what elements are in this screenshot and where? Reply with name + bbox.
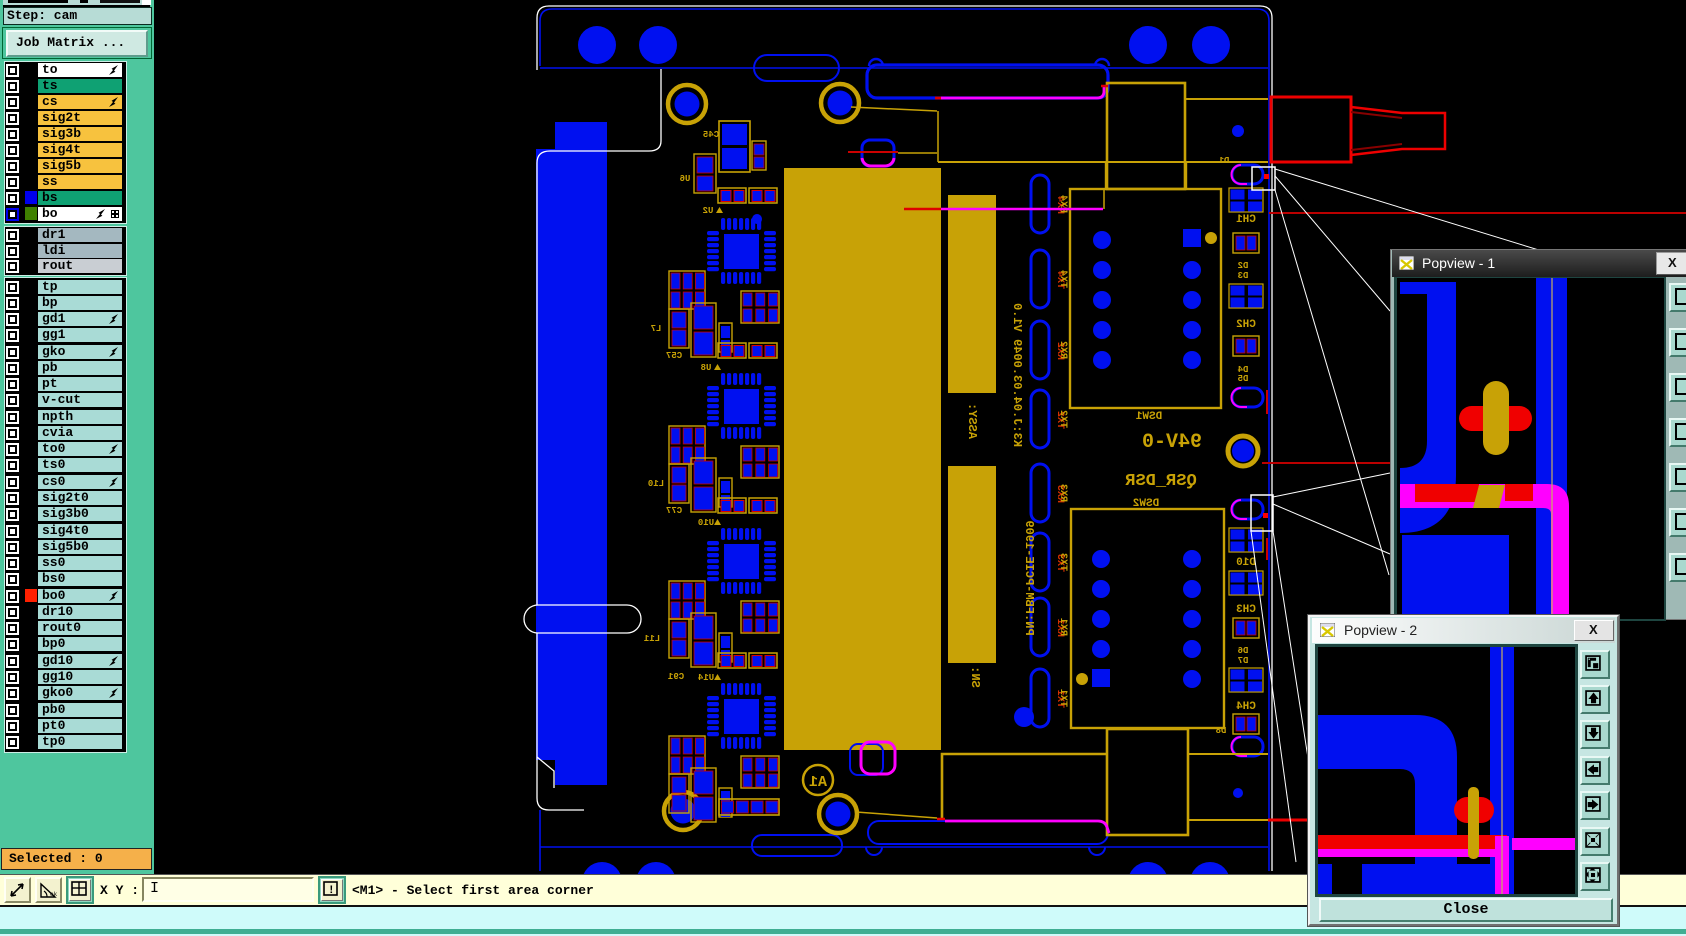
pv2 magenta band bbox=[1318, 849, 1507, 857]
svg-text:C57: C57 bbox=[666, 351, 682, 361]
layer row ss0 bbox=[0, 556, 121, 570]
layer row pt bbox=[0, 377, 121, 391]
diode D8 bbox=[1216, 714, 1259, 736]
svg-text:TX4: TX4 bbox=[1057, 270, 1068, 288]
channel 1 bbox=[669, 188, 779, 357]
channel 2 bbox=[669, 343, 779, 512]
selected counter bbox=[1, 848, 152, 870]
svg-text:ok: ok bbox=[50, 891, 58, 898]
layer row bp0 bbox=[0, 637, 121, 651]
pv2 canvas bbox=[1318, 647, 1575, 894]
layer row bs0 bbox=[0, 572, 121, 586]
gold pad SN bbox=[948, 466, 996, 663]
svg-text:D8: D8 bbox=[1216, 726, 1227, 736]
layer row gg1 bbox=[0, 328, 121, 342]
step row bbox=[3, 7, 152, 25]
layer row dr10 bbox=[0, 605, 121, 619]
pv1 thin gold line bbox=[1551, 278, 1553, 619]
svg-text:DSW2: DSW2 bbox=[1133, 498, 1159, 510]
layer row sig3b0 bbox=[0, 507, 121, 521]
layer row gd1 bbox=[0, 312, 121, 326]
C45 capacitor bbox=[719, 121, 750, 172]
CH3 pads bbox=[1229, 571, 1263, 616]
svg-text:U2: U2 bbox=[703, 206, 714, 216]
pv2 red band bbox=[1318, 835, 1507, 849]
anchor pad bottom bbox=[850, 744, 883, 775]
diode D4 bbox=[1233, 336, 1259, 384]
cut-off title row bbox=[3, 0, 150, 7]
DIP switch DSW2 bbox=[1071, 498, 1224, 728]
bottom gold/red/magenta trace bbox=[856, 812, 937, 818]
svg-text:DSW1: DSW1 bbox=[1135, 411, 1162, 423]
svg-text:C91: C91 bbox=[667, 672, 684, 682]
bottom slot stadium bbox=[752, 835, 842, 856]
svg-text:RX4: RX4 bbox=[1057, 195, 1068, 213]
layer row cs0 bbox=[0, 475, 121, 489]
top slot stadium left bbox=[754, 55, 839, 81]
bottom big slot outline bbox=[868, 821, 1108, 844]
layer row pt0 bbox=[0, 719, 121, 733]
svg-text:ASSY:: ASSY: bbox=[965, 403, 979, 439]
layer row pb0 bbox=[0, 703, 121, 717]
svg-text:CH1: CH1 bbox=[1236, 214, 1256, 226]
central gold region (heatsink/footprint) bbox=[784, 168, 941, 750]
mounting holes top bbox=[578, 26, 616, 64]
svg-text:RX1: RX1 bbox=[1057, 618, 1068, 636]
left layer panel bbox=[0, 0, 154, 874]
svg-text:L10: L10 bbox=[648, 479, 664, 489]
svg-text:94V-0: 94V-0 bbox=[1142, 431, 1202, 454]
pv1 canvas bbox=[1397, 278, 1664, 619]
layer row cs bbox=[0, 95, 121, 109]
layer row gg10 bbox=[0, 670, 121, 684]
magenta trace 2 bbox=[941, 208, 1103, 211]
svg-text:D6: D6 bbox=[1238, 646, 1249, 656]
connector slot bbox=[524, 605, 641, 633]
svg-text:D5: D5 bbox=[1238, 374, 1249, 384]
pv2 close btn bbox=[1574, 620, 1614, 641]
svg-text:CH3: CH3 bbox=[1236, 604, 1256, 616]
D10 pads bbox=[1229, 528, 1263, 569]
pv1 red pad bbox=[1459, 406, 1532, 431]
layer row npth bbox=[0, 410, 121, 424]
layer row sig5b bbox=[0, 159, 121, 173]
layer row to bbox=[0, 63, 121, 77]
layer row dr1 bbox=[0, 228, 121, 242]
svg-text:SN:: SN: bbox=[968, 666, 982, 688]
pv2 gold pad bbox=[1468, 787, 1479, 859]
D8 slot bbox=[1232, 737, 1263, 756]
grid button (active) bbox=[66, 876, 94, 904]
svg-text:C45: C45 bbox=[703, 130, 719, 140]
red connector envelope bbox=[1271, 97, 1351, 162]
layer row sig5b0 bbox=[0, 540, 121, 554]
layer group 2 (drill layers) bbox=[4, 226, 127, 276]
svg-text:L11: L11 bbox=[643, 634, 660, 644]
top slot rounded outline bbox=[867, 65, 1108, 98]
fiducial A1 bbox=[803, 765, 833, 795]
svg-text:CH2: CH2 bbox=[1236, 319, 1256, 331]
pv2 right blue track bbox=[1490, 647, 1514, 894]
pv1 canvas frame bbox=[1394, 277, 1666, 621]
zoom source box 1 bbox=[1252, 167, 1275, 190]
status bar bbox=[0, 905, 1686, 936]
CH1 pads bbox=[1229, 188, 1263, 226]
svg-text:U14: U14 bbox=[697, 673, 714, 683]
diode D6/D7 bbox=[1233, 618, 1259, 666]
svg-text:U10: U10 bbox=[698, 518, 714, 528]
layer row bo0 bbox=[0, 589, 121, 603]
layer row gko bbox=[0, 345, 121, 359]
vias bbox=[752, 214, 762, 224]
svg-text:PN:FBM-PCIE-1909: PN:FBM-PCIE-1909 bbox=[1022, 520, 1036, 635]
pv2 magenta stub bbox=[1512, 838, 1575, 850]
svg-text:TX2: TX2 bbox=[1057, 410, 1068, 428]
alert button bbox=[318, 876, 346, 904]
pv1 side buttons bbox=[1669, 283, 1686, 312]
svg-text:K3:J.04.03.0049 V1.0: K3:J.04.03.0049 V1.0 bbox=[1010, 303, 1024, 447]
svg-text:TX1: TX1 bbox=[1057, 689, 1068, 707]
plated holes (gold ring + blue pad) bbox=[668, 85, 706, 123]
top edge bumps bbox=[869, 59, 883, 66]
pv2 side buttons bbox=[1580, 650, 1610, 679]
layer row ss bbox=[0, 175, 121, 189]
layer row ts0 bbox=[0, 458, 121, 472]
mounting holes bottom bbox=[582, 862, 622, 902]
layer row sig2t0 bbox=[0, 491, 121, 505]
DIP switch DSW1 bbox=[1070, 163, 1221, 423]
svg-text:CH4: CH4 bbox=[1236, 701, 1256, 713]
measure tool button bbox=[35, 877, 62, 903]
Popview-2 window bbox=[1308, 615, 1619, 926]
pv2 red pad bbox=[1454, 797, 1494, 823]
svg-text:D2: D2 bbox=[1238, 261, 1249, 271]
svg-text:TX3: TX3 bbox=[1057, 553, 1068, 571]
pv2 bottom blue pour bbox=[1318, 864, 1491, 894]
svg-text:D7: D7 bbox=[1238, 656, 1249, 666]
magenta trace top bbox=[935, 97, 943, 100]
layer row ts bbox=[0, 79, 121, 93]
pv2 close button bbox=[1319, 898, 1613, 922]
channel 4 bbox=[669, 653, 779, 822]
svg-text:U8: U8 bbox=[701, 363, 712, 373]
layer row bo bbox=[0, 207, 121, 221]
layer row sig4t bbox=[0, 143, 121, 157]
svg-text:D10: D10 bbox=[1236, 557, 1256, 569]
red net lines right bbox=[1269, 212, 1686, 214]
board outline (blue) bbox=[540, 9, 1269, 871]
layer row gko0 bbox=[0, 686, 121, 700]
small 2-pad right of C45 bbox=[752, 141, 766, 170]
pv1 right blue track bbox=[1536, 278, 1567, 619]
layer group 3 (misc layers) bbox=[4, 277, 127, 753]
pv1 red overlays bbox=[1415, 484, 1479, 502]
LED slots column bbox=[1031, 175, 1049, 233]
coordinate input bbox=[142, 877, 314, 902]
svg-text:C77: C77 bbox=[666, 506, 682, 516]
layer row sig2t bbox=[0, 111, 121, 125]
layer row tp0 bbox=[0, 735, 121, 749]
layer row v-cut bbox=[0, 393, 121, 407]
diode D5 slot bbox=[1232, 388, 1263, 407]
pv2 canvas frame bbox=[1315, 644, 1578, 897]
bottom connector footprint bbox=[942, 754, 1107, 820]
layer row tp bbox=[0, 280, 121, 294]
top RF connector footprint bbox=[1107, 83, 1185, 189]
layer row pb bbox=[0, 361, 121, 375]
Popview-1 window bbox=[1390, 249, 1686, 620]
svg-text:!: ! bbox=[328, 885, 335, 897]
pv1 close btn bbox=[1656, 252, 1686, 275]
svg-text:U6: U6 bbox=[680, 174, 691, 184]
PCIe edge connector bbox=[536, 149, 607, 760]
pv2 blue elbow trace bbox=[1318, 715, 1457, 894]
svg-text:D3: D3 bbox=[1238, 271, 1249, 281]
zoom source box 2 bbox=[1251, 495, 1273, 531]
svg-text:RX2: RX2 bbox=[1057, 341, 1068, 359]
job matrix button bbox=[2, 27, 152, 59]
channel 3 bbox=[669, 498, 779, 667]
layer row rout0 bbox=[0, 621, 121, 635]
layer row to0 bbox=[0, 442, 121, 456]
diode D1 slot bbox=[1232, 165, 1263, 184]
zoom tool button bbox=[4, 877, 31, 903]
trailing passive row bbox=[719, 799, 779, 815]
board rout outline (white) bbox=[524, 6, 1272, 871]
CH4 pads bbox=[1229, 668, 1263, 713]
bottom toolbar bbox=[0, 874, 1686, 906]
layer group 1 (board layers) bbox=[4, 61, 127, 224]
diode D10 slot bbox=[1232, 500, 1263, 519]
gold pad ASSY bbox=[948, 195, 996, 393]
pv1 title bar bbox=[1392, 250, 1686, 277]
pv2 magenta vertical bbox=[1495, 836, 1509, 894]
pv2 title bar bbox=[1312, 618, 1615, 643]
diode D2/D3 bbox=[1233, 233, 1259, 281]
svg-text:A1: A1 bbox=[809, 774, 827, 791]
layer row gd10 bbox=[0, 654, 121, 668]
pv1 gold trace crossing bbox=[1473, 485, 1505, 508]
pv1 bottom blue pour bbox=[1402, 535, 1509, 625]
layer row ldi bbox=[0, 244, 121, 258]
pv1 gold pad bbox=[1483, 381, 1509, 455]
UL logo circle bbox=[1228, 436, 1258, 466]
svg-text:QSR_DSR: QSR_DSR bbox=[1125, 472, 1197, 491]
U6 component bbox=[694, 154, 716, 193]
svg-text:RX3: RX3 bbox=[1057, 484, 1068, 502]
bottom edge bumps bbox=[866, 847, 882, 855]
pv2 thin gold line bbox=[1501, 647, 1503, 894]
leader lines bbox=[1251, 169, 1542, 862]
layer row cvia bbox=[0, 426, 121, 440]
layer row bs bbox=[0, 191, 121, 205]
layer row sig3b bbox=[0, 127, 121, 141]
layer row bp bbox=[0, 296, 121, 310]
layer row rout bbox=[0, 259, 121, 273]
svg-text:L7: L7 bbox=[651, 324, 662, 334]
CH2 pads bbox=[1229, 284, 1263, 331]
gold trace from ring bbox=[851, 107, 937, 111]
layer row sig4t0 bbox=[0, 524, 121, 538]
anchor pad top bbox=[862, 140, 894, 166]
pv1 magenta track bbox=[1400, 484, 1569, 619]
